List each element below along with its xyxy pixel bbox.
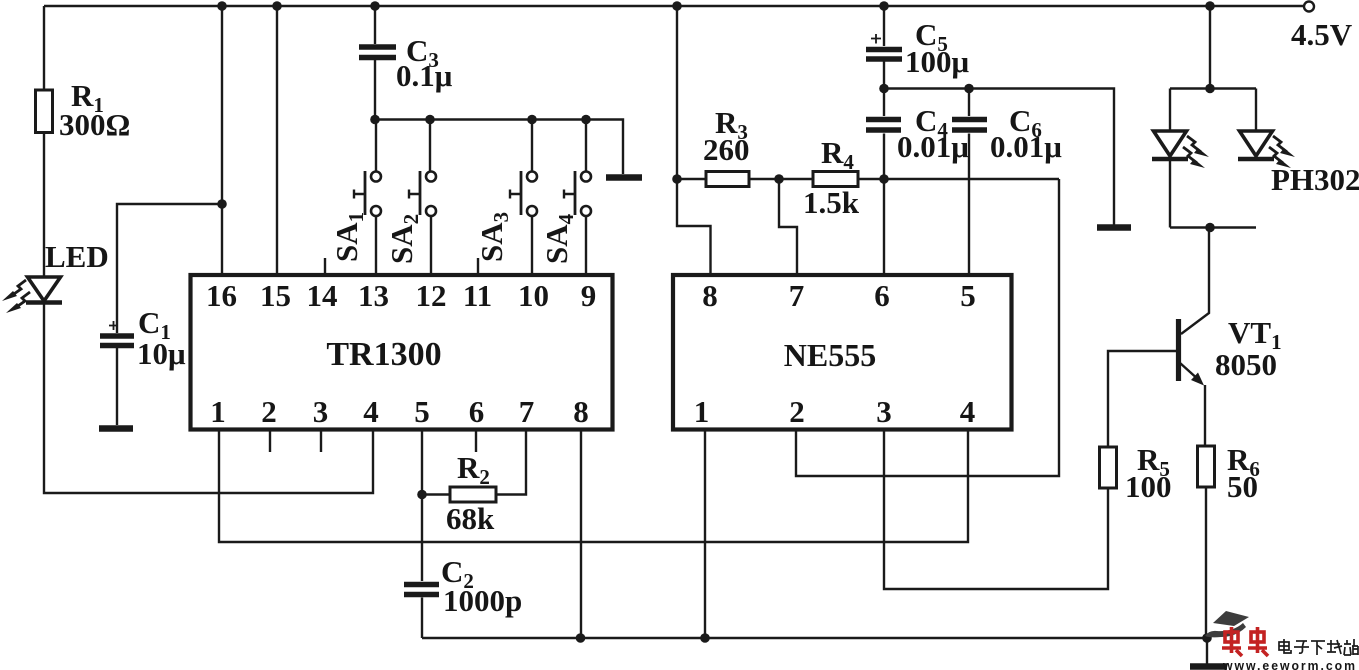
switch SA3 xyxy=(510,120,537,276)
pin 6 stub TR1300 xyxy=(475,430,477,453)
svg-text:1: 1 xyxy=(210,394,226,429)
junction dot pin6 node xyxy=(879,174,889,184)
transistor VT1 collector xyxy=(1181,228,1209,335)
capacitor C6 xyxy=(952,120,987,131)
svg-text:0.01μ: 0.01μ xyxy=(990,129,1062,164)
svg-text:10μ: 10μ xyxy=(137,336,186,371)
svg-text:100μ: 100μ xyxy=(905,44,970,79)
LED PH302 right arrows xyxy=(1269,136,1295,168)
svg-text:8050: 8050 xyxy=(1215,347,1277,382)
junction dot bus SA3 xyxy=(527,115,537,125)
wire rail to pin16 TR1300 xyxy=(221,6,223,275)
svg-text:3: 3 xyxy=(876,394,892,429)
ground bottom xyxy=(1190,663,1227,670)
wire pin2 NE555 jog xyxy=(796,179,1059,476)
capacitor C3 xyxy=(359,47,396,58)
svg-text:5: 5 xyxy=(960,278,976,313)
watermark logo cap icon xyxy=(1205,611,1249,637)
wire rail to R3 node xyxy=(676,6,678,179)
svg-text:11: 11 xyxy=(463,278,492,313)
wire rail to pin15 TR1300 xyxy=(276,6,278,275)
svg-text:13: 13 xyxy=(358,278,389,313)
pin 3 stub TR1300 xyxy=(320,430,322,453)
svg-text:1: 1 xyxy=(694,394,710,429)
junction dot decoupling node xyxy=(879,84,889,94)
wire PH302 right anode xyxy=(1255,89,1257,132)
pin 2 stub TR1300 xyxy=(269,430,271,453)
svg-text:3: 3 xyxy=(313,394,329,429)
watermark text dianzi xiazaizhan xyxy=(1279,639,1358,655)
wire C6 top lead xyxy=(968,89,970,117)
resistor R2 xyxy=(450,487,496,502)
IC U2 NE555 xyxy=(673,275,1012,430)
capacitor C5 xyxy=(866,50,902,60)
junction dot bus SA4 xyxy=(581,115,591,125)
svg-text:LED: LED xyxy=(45,239,109,274)
svg-text:50: 50 xyxy=(1227,469,1258,504)
svg-text:6: 6 xyxy=(469,394,485,429)
wire pin8 NE555 jog to supply xyxy=(677,179,711,275)
ground decoupling xyxy=(1097,224,1131,231)
transistor VT1 emitter xyxy=(1180,363,1200,381)
switch SA2 xyxy=(409,120,436,276)
junction dot pin1 NE555 rail xyxy=(700,633,710,643)
wire pin3 NE555 to R5 xyxy=(884,430,1108,590)
junction dot rail x375 xyxy=(370,1,380,11)
svg-text:4: 4 xyxy=(363,394,379,429)
junction dot rail x1210 xyxy=(1205,1,1215,11)
watermark chongchong red character 2 xyxy=(1248,627,1268,656)
junction dot rail x222 xyxy=(217,1,227,11)
svg-text:260: 260 xyxy=(703,132,750,167)
resistor R1 xyxy=(36,90,53,133)
wire emitter to R6 xyxy=(1204,385,1206,446)
svg-text:7: 7 xyxy=(789,278,805,313)
svg-text:0.01μ: 0.01μ xyxy=(897,129,969,164)
junction dot PH302 top xyxy=(1205,84,1215,94)
svg-text:7: 7 xyxy=(519,394,535,429)
junction dot bus SA2 xyxy=(425,115,435,125)
pin 11 stub TR1300 xyxy=(477,258,479,275)
wire decoupling net to ground xyxy=(884,89,1114,226)
junction dot rail x677 xyxy=(672,1,682,11)
wire pin1 NE555 to bottom rail xyxy=(704,430,706,639)
LED D1 xyxy=(26,277,62,303)
junction dot R3 R4 node xyxy=(774,174,784,184)
svg-text:6: 6 xyxy=(874,278,890,313)
wire pin1 TR1300 to pin4 NE555 xyxy=(219,430,968,543)
wire C4 bottom to pin6 NE555 xyxy=(883,134,885,276)
wire rail to ground stub xyxy=(1206,638,1208,664)
junction dot pin8 TR1300 rail xyxy=(576,633,586,643)
junction dot R3 node xyxy=(672,174,682,184)
svg-text:100: 100 xyxy=(1125,469,1172,504)
wire bottom rail xyxy=(422,637,1208,639)
svg-text:1.5k: 1.5k xyxy=(803,185,860,220)
wire R3 left lead xyxy=(677,178,706,180)
wire switch bus xyxy=(375,120,623,175)
wire C5 to decoupling node xyxy=(883,59,885,89)
capacitor C1 polarity plus xyxy=(109,321,118,330)
svg-text:10: 10 xyxy=(518,278,549,313)
wire C3 to switch bus xyxy=(374,58,376,120)
capacitor C2 xyxy=(404,585,439,595)
wire PH302 frame bottom xyxy=(1170,226,1256,228)
wire R2 left lead xyxy=(422,493,450,495)
wire PH302 left cathode xyxy=(1169,161,1171,228)
svg-text:12: 12 xyxy=(416,278,447,313)
wire power rail 4.5V xyxy=(44,5,1304,7)
wire C4 top lead xyxy=(883,89,885,117)
svg-text:16: 16 xyxy=(206,278,237,313)
IC U1 TR1300 xyxy=(191,275,613,430)
svg-text:15: 15 xyxy=(260,278,291,313)
terminal 4.5V xyxy=(1304,2,1314,12)
wire pin8 TR1300 to bottom rail xyxy=(580,430,582,639)
resistor R5 xyxy=(1100,447,1117,488)
watermark chongchong red character 1 xyxy=(1222,627,1242,656)
wire C1 to ground xyxy=(116,348,118,425)
pin 14 stub TR1300 xyxy=(324,258,326,275)
wire R5 top to base VT1 xyxy=(1108,351,1176,447)
junction dot PH302 bottom xyxy=(1205,223,1215,233)
resistor R4 xyxy=(813,172,858,187)
svg-text:TR1300: TR1300 xyxy=(326,336,441,373)
wire C2 to bottom rail xyxy=(421,598,423,639)
wire rail to PH302 frame xyxy=(1209,6,1211,89)
svg-text:8: 8 xyxy=(573,394,589,429)
switch SA1 xyxy=(354,120,381,276)
svg-text:5: 5 xyxy=(414,394,430,429)
switch SA4 xyxy=(564,120,591,276)
junction dot R2 node xyxy=(417,490,427,500)
transistor VT1 base bar xyxy=(1176,319,1181,381)
wire rail to C5 xyxy=(883,6,885,46)
junction dot R6 rail xyxy=(1202,633,1212,643)
resistor R6 xyxy=(1198,446,1215,487)
svg-text:4.5V: 4.5V xyxy=(1291,17,1353,52)
wire PH302 left anode xyxy=(1169,89,1171,132)
wire R2 right lead to pin7 TR1300 xyxy=(496,430,526,495)
wire pin5 TR1300 down to C2 xyxy=(421,430,423,582)
LED PH302 right diode xyxy=(1238,131,1274,159)
wire LED cathode to pin4 TR1300 xyxy=(44,305,373,494)
ground C1 xyxy=(99,425,133,432)
transistor VT1 emitter arrow xyxy=(1191,373,1204,386)
wire R6 to bottom rail xyxy=(1205,487,1207,638)
wire pin7 NE555 jog xyxy=(779,179,797,275)
svg-text:68k: 68k xyxy=(446,501,495,536)
wire branch to C1 xyxy=(117,204,222,333)
junction dot rail x277 xyxy=(272,1,282,11)
wire rail to R1 xyxy=(43,6,45,90)
capacitor C4 xyxy=(866,120,901,131)
svg-text:PH302: PH302 xyxy=(1271,162,1359,197)
wire R1 to LED xyxy=(43,133,45,278)
capacitor C1 xyxy=(100,336,134,346)
LED emission arrows xyxy=(2,280,30,313)
svg-text:300Ω: 300Ω xyxy=(59,107,130,142)
junction dot bus SA1 xyxy=(370,115,380,125)
wire R3 to R4 xyxy=(749,178,813,180)
junction dot C1 branch xyxy=(217,199,227,209)
svg-text:4: 4 xyxy=(960,394,976,429)
wire PH302 frame top xyxy=(1170,87,1256,89)
wire C6 bottom to pin5 NE555 xyxy=(968,134,970,276)
svg-text:NE555: NE555 xyxy=(784,337,876,373)
wire rail to C3 xyxy=(374,6,376,44)
svg-text:2: 2 xyxy=(261,394,277,429)
svg-text:2: 2 xyxy=(789,394,805,429)
wire R4 right lead to pin2 jog xyxy=(858,178,1059,180)
svg-text:8: 8 xyxy=(702,278,718,313)
svg-text:0.1μ: 0.1μ xyxy=(396,58,453,93)
svg-text:1000p: 1000p xyxy=(443,583,522,618)
junction dot rail x884 xyxy=(879,1,889,11)
LED PH302 left arrows xyxy=(1183,136,1209,168)
svg-text:14: 14 xyxy=(307,278,338,313)
svg-text:9: 9 xyxy=(581,278,597,313)
capacitor C5 polarity plus xyxy=(871,34,881,44)
resistor R3 xyxy=(706,172,749,187)
ground switch bus xyxy=(606,174,642,181)
svg-text:www.eeworm.com: www.eeworm.com xyxy=(1222,659,1357,670)
junction dot C6 top xyxy=(964,84,974,94)
LED PH302 left diode xyxy=(1152,131,1188,159)
